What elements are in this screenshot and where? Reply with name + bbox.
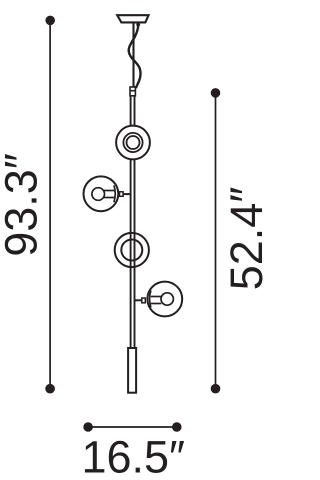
right globe socket flange (150, 291, 151, 308)
bottom dimension left dot (83, 422, 93, 432)
svg-text:52.4″: 52.4″ (221, 187, 272, 291)
cable top knob (136, 23, 140, 27)
right globe G2 (147, 282, 182, 317)
fixture ring F2 (two concentric circles, rod visible) (115, 233, 149, 267)
bottom cylinder (128, 348, 136, 393)
left globe G1 (84, 176, 119, 211)
svg-text:16.5″: 16.5″ (81, 432, 185, 480)
right globe arm stub (135, 299, 143, 301)
left globe socket flange (114, 185, 115, 202)
left dimension bottom dot (45, 384, 55, 394)
twisted cable (129, 25, 141, 89)
right dimension bottom dot (211, 384, 221, 394)
ceiling canopy (117, 15, 148, 22)
left dimension top dot (45, 16, 55, 26)
rod top coupler (130, 87, 135, 96)
right globe socket neck (151, 297, 162, 304)
svg-text:93.3″: 93.3″ (0, 153, 47, 257)
right globe bulb (161, 293, 173, 305)
rod (vertical double line) (131, 95, 135, 349)
bottom dimension right dot (172, 422, 182, 432)
left globe socket neck (104, 191, 115, 198)
right dimension line (215, 93, 217, 389)
left globe arm connector (120, 192, 124, 197)
bottom dimension line (88, 426, 177, 428)
left globe bulb (92, 188, 105, 201)
left dimension line (49, 20, 51, 388)
right dimension top dot (211, 88, 221, 98)
left globe arm stub (123, 193, 132, 195)
hanging wire (132, 22, 134, 87)
right globe arm connector (142, 298, 146, 303)
fixture disc F1 (three concentric circles, white filled) (116, 126, 150, 160)
